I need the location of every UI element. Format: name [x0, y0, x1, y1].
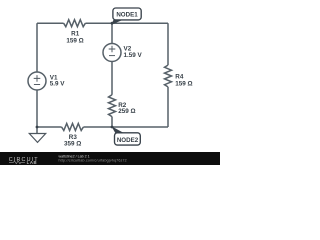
junction dot at top node — [111, 22, 114, 25]
resistor R1 159 Ohm — [64, 20, 86, 45]
wire bottom segment right of R3 — [83, 126, 168, 128]
svg-text:259 Ω: 259 Ω — [118, 108, 135, 115]
wire bottom segment left of R3 — [37, 126, 62, 128]
svg-text:1.59 V: 1.59 V — [124, 52, 143, 59]
svg-text:159 Ω: 159 Ω — [66, 38, 83, 45]
svg-text:NODE2: NODE2 — [117, 137, 139, 144]
svg-text:359 Ω: 359 Ω — [64, 141, 81, 148]
svg-text:http://circuitlab.com/c/urfabg: http://circuitlab.com/c/urfabgjvhq76z72 — [59, 159, 127, 163]
wire left branch lower (V1 bottom to ground junction) — [36, 90, 38, 127]
junction dot at bottom node — [111, 126, 114, 129]
svg-text:NODE1: NODE1 — [116, 12, 138, 19]
node NODE1 flag — [111, 8, 141, 25]
junction dot at ground node — [36, 126, 39, 129]
resistor R2 259 Ohm — [109, 95, 136, 117]
wire middle branch top (junction to V2) — [111, 23, 113, 43]
footer bar — [0, 152, 220, 165]
node NODE2 flag — [111, 126, 140, 145]
resistor R4 159 Ohm — [165, 65, 193, 88]
wire right branch upper (corner to R4) — [167, 23, 169, 65]
wire top segment left of R1 — [37, 22, 64, 24]
voltage source V1 5.9 V — [28, 72, 65, 90]
wire right branch lower (R4 to bottom corner) — [167, 87, 169, 127]
ground — [29, 127, 45, 142]
CircuitLab logo — [9, 157, 39, 165]
svg-text:R4: R4 — [175, 74, 184, 81]
wire middle branch bottom (R2 bottom to bottom wire) — [111, 117, 113, 127]
wire middle branch (V2 bottom to R2 top) — [111, 62, 113, 95]
voltage source V2 1.59 V — [103, 44, 143, 62]
resistor R3 359 Ohm — [62, 124, 84, 148]
wire left branch upper (V1 top to corner) — [36, 23, 38, 72]
svg-text:159 Ω: 159 Ω — [175, 81, 192, 88]
svg-text:5.9 V: 5.9 V — [50, 81, 66, 88]
svg-text:LAB: LAB — [27, 160, 38, 165]
wire top segment right of R1 to node junction and right corner — [85, 22, 168, 24]
